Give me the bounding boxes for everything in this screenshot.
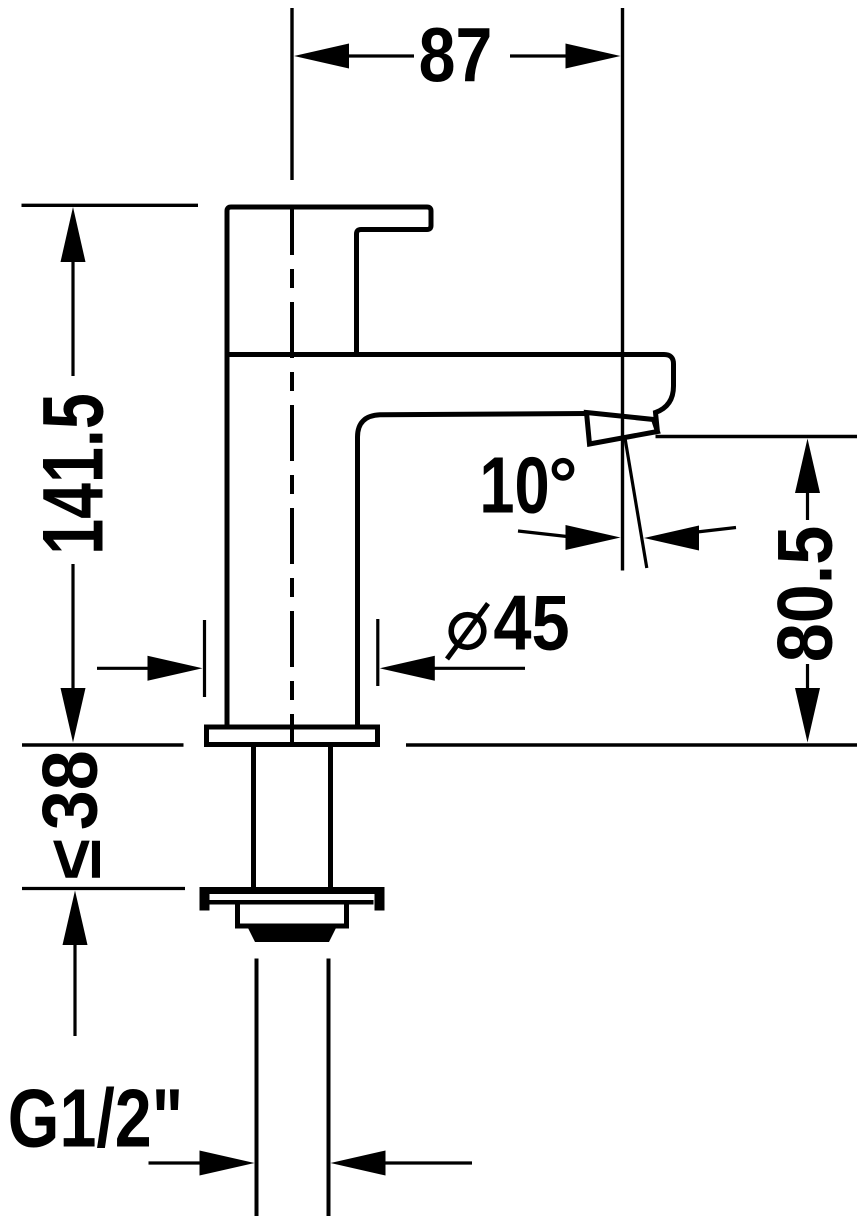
faucet handle and left edge [227,207,431,727]
arrow 87 left [294,44,349,69]
locknut body [238,904,347,926]
extension line left of dia45 [203,620,206,697]
shank left line [251,747,256,887]
svg-text:≤: ≤ [33,839,116,880]
arrow 141.5 bottom [61,688,86,743]
extension line right of dia45 [376,619,379,686]
arrow 141.5 top [61,207,86,262]
svg-text:10: 10 [479,442,549,531]
dia45 left tail [97,667,150,670]
arrow 87 right [566,44,621,69]
supply pipe left line [255,959,259,1216]
shank right line [328,747,333,887]
dimension line 141.5 upper segment [71,260,74,376]
washer left end [200,887,210,911]
arrow 80.5 bottom [795,688,820,743]
lower reference line 38 [22,887,185,890]
dia45 right tail [433,667,525,670]
pipe dim left arrow [200,1151,255,1176]
svg-text:80.5: 80.5 [761,526,848,663]
spout underside and body right edge [358,414,587,728]
angle dim right arrow [644,526,699,551]
svg-text:87: 87 [419,13,493,99]
svg-text:G1/2": G1/2" [8,1072,183,1165]
arrow 80.5 top [795,439,820,494]
dimension tail 38 [73,943,76,1036]
mounting surface line right segment [406,743,857,746]
extension line right of 87 dim / angle reference vertical [621,8,624,571]
angle dim left tail [518,531,567,537]
pipe dim right arrow [331,1151,386,1176]
angle dim left arrow [566,525,621,550]
washer right end [375,887,385,911]
pipe dim right tail [383,1161,472,1164]
dia45 right arrow [380,656,435,681]
diameter symbol circle [451,615,484,648]
svg-text:45: 45 [493,578,569,666]
degree ring [554,461,571,478]
diameter symbol slash [447,604,488,660]
faucet body top and spout [227,355,674,431]
svg-text:141.5: 141.5 [26,393,122,554]
dimension line 87 right segment [510,54,566,57]
mounting surface line left segment [22,743,184,746]
angle reference slanted line [625,437,647,568]
centerline [290,207,294,746]
extension line left of 87 dim [290,8,293,180]
extension line top of 80.5 [656,435,858,438]
locknut cap [247,926,337,942]
pipe dim left tail [149,1161,202,1164]
dimension line 80.5 lower segment [806,664,809,690]
supply pipe right line [327,959,331,1216]
dimension line 141.5 lower segment [71,564,74,690]
extension line top of 141.5 [22,204,199,207]
dimension line 80.5 upper segment [806,490,809,520]
dia45 left arrow [148,656,203,681]
angle dim right tail [697,528,736,533]
aerator outlet [587,413,658,445]
washer bottom bar [210,900,374,905]
washer top bar [200,887,385,894]
dimension line 87 left segment [348,54,414,57]
svg-text:38: 38 [26,750,113,830]
base plate [207,727,378,745]
arrow 38 [63,891,88,946]
